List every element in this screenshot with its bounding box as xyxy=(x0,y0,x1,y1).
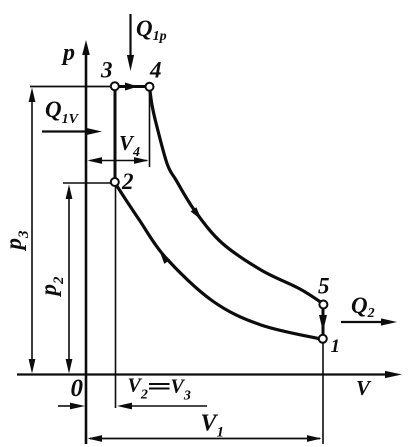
svg-text:Q2: Q2 xyxy=(351,293,375,321)
wire: extension below 4 xyxy=(149,90,151,167)
wire: isochore 5-1 xyxy=(322,308,325,335)
svg-text:5: 5 xyxy=(318,274,330,299)
dimension V1 xyxy=(90,438,320,440)
svg-text:2: 2 xyxy=(121,169,134,194)
svg-text:Q1p: Q1p xyxy=(136,16,167,44)
p axis xyxy=(85,52,88,444)
V axis xyxy=(17,373,392,375)
wire: adiabat 4-5 xyxy=(150,87,324,304)
wire: extension below 1 xyxy=(322,342,324,444)
dimension p3 xyxy=(31,91,33,370)
svg-text:V4: V4 xyxy=(119,131,140,160)
wire: extension below 2 to V2 dimension xyxy=(115,183,117,408)
svg-text:p2: p2 xyxy=(36,276,67,298)
dimension V4 xyxy=(90,160,147,162)
wire: adiabat 1-2 xyxy=(115,183,323,340)
svg-text:V3: V3 xyxy=(171,376,191,404)
svg-text:p: p xyxy=(61,40,75,66)
wire: isobar 3-4 xyxy=(115,85,150,88)
node 2 xyxy=(111,178,119,186)
node 1 xyxy=(319,335,327,343)
svg-text:V: V xyxy=(356,376,372,400)
heat Q1p arrow xyxy=(129,14,131,59)
svg-text:4: 4 xyxy=(149,58,162,83)
svg-text:3: 3 xyxy=(100,58,113,83)
svg-text:p3: p3 xyxy=(1,230,32,252)
svg-text:1: 1 xyxy=(331,336,341,357)
dimension p2 xyxy=(68,188,70,370)
wire: p3 level line xyxy=(30,86,115,88)
svg-text:0: 0 xyxy=(71,375,84,402)
node 4 xyxy=(146,83,154,91)
svg-text:V2: V2 xyxy=(128,375,148,403)
svg-text:V1: V1 xyxy=(201,411,225,441)
wire: isochore 2-3 xyxy=(114,87,117,184)
node 3 xyxy=(111,82,119,90)
node 5 xyxy=(319,301,327,309)
wire: p2 level line xyxy=(63,182,115,184)
svg-text:Q1V: Q1V xyxy=(45,97,80,127)
